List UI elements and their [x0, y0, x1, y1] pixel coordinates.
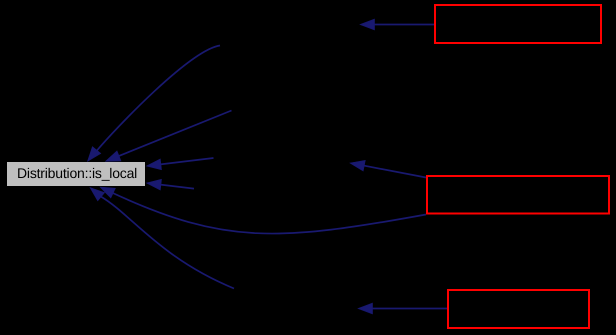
- svg-text:Distribution::is_local: Distribution::is_local: [17, 165, 137, 181]
